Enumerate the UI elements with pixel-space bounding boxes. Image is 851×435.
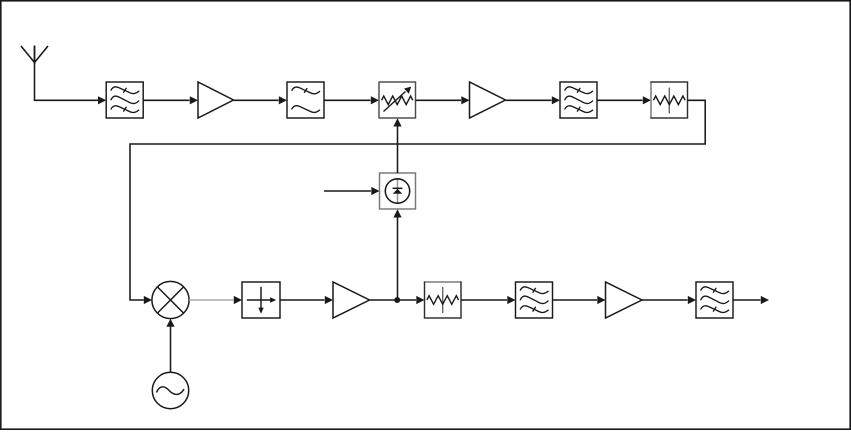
band-pass filter FL5 (output filter) — [696, 282, 733, 318]
junction node at detector tap — [394, 297, 400, 303]
wire mixer M1 to frequency down-converter (gray) — [189, 296, 242, 304]
wire AT2 to mixer M1 (route right-down-left-down) — [130, 100, 705, 304]
wire detector D1 output up to AT1 control input — [393, 118, 401, 173]
fixed attenuator AT2 — [651, 82, 688, 118]
low-pass filter FL2 — [287, 82, 324, 118]
amplifier A2 — [470, 82, 506, 118]
detector D1 (AGC level detector diode) — [380, 173, 416, 209]
wire AT3 to band-pass filter FL4 — [461, 296, 516, 304]
band-pass filter FL3 — [560, 82, 597, 118]
frequency down-converter U1 — [242, 282, 280, 318]
antenna — [21, 46, 48, 65]
wire local oscillator G1 to mixer M1 — [166, 319, 174, 373]
wire junction node to detector D1 input — [393, 209, 401, 300]
wire reference input to detector D1 — [324, 187, 380, 195]
fixed attenuator AT3 — [425, 282, 462, 318]
wire A3 to attenuator AT3 — [370, 296, 425, 304]
variable attenuator AT1 (AGC controlled) — [379, 82, 416, 118]
wire FL2 to variable attenuator AT1 — [324, 96, 379, 104]
wire antenna to input band-pass filter — [35, 46, 107, 104]
amplifier A1 (LNA) — [198, 82, 234, 118]
amplifier A4 (output amplifier) — [606, 282, 643, 318]
wire FL1 to amplifier A1 — [143, 96, 198, 104]
wire A2 to band-pass filter FL3 — [506, 96, 561, 104]
wire A4 to band-pass filter FL5 — [642, 296, 696, 304]
wire A1 to low-pass filter FL2 — [234, 96, 288, 104]
wire U1 to amplifier A3 — [280, 296, 333, 304]
mixer M1 — [152, 281, 189, 318]
wire AT1 to amplifier A2 — [416, 96, 470, 104]
band-pass filter FL1 (input RF filter) — [106, 82, 143, 118]
local oscillator G1 — [152, 372, 188, 408]
wire FL4 to amplifier A4 — [553, 296, 606, 304]
wire FL3 to attenuator AT2 — [597, 96, 651, 104]
wire FL5 to IF output — [733, 296, 770, 304]
amplifier A3 (IF amplifier) — [333, 282, 370, 318]
band-pass filter FL4 — [516, 282, 553, 318]
